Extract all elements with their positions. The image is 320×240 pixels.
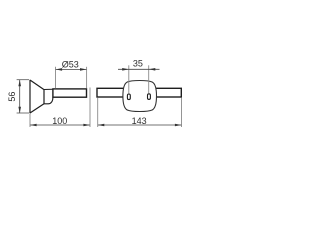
dim 100 left extension line: [29, 114, 31, 128]
dim 100 right extension line: [89, 88, 91, 128]
dim 143 left extension line: [97, 98, 99, 127]
front view bar: [97, 88, 181, 97]
dim 56 arrow up: [18, 80, 21, 87]
dim 100 dimension line: [30, 124, 90, 126]
side view cone body: [30, 80, 44, 113]
dim 143 right extension line: [181, 98, 183, 127]
screw hole right: [148, 94, 151, 100]
dim 35 dimension line: [118, 68, 160, 70]
dim O53 dimension line: [56, 68, 87, 70]
dim 143 dimension line: [98, 124, 181, 126]
dim 35 arrow left outside: [122, 68, 129, 71]
dim 56 top extension line: [17, 79, 30, 81]
svg-text:35: 35: [133, 59, 143, 69]
front view wall plate: [123, 81, 157, 112]
dim 56 bottom extension line: [17, 112, 30, 114]
svg-text:Ø53: Ø53: [62, 60, 79, 70]
dim O53 arrow right: [80, 68, 87, 71]
dim 100 arrow right: [83, 124, 90, 127]
svg-text:100: 100: [52, 116, 67, 126]
dim 35 arrow right outside: [149, 68, 156, 71]
dim 143 arrow left: [98, 124, 105, 127]
dim 143 arrow right: [175, 124, 182, 127]
dim O53 arrow left: [56, 68, 63, 71]
dim 35 right extension line: [148, 65, 150, 93]
svg-text:143: 143: [132, 116, 147, 126]
dim 56 dimension line: [19, 80, 21, 113]
svg-text:56: 56: [7, 92, 17, 102]
side view tube: [53, 89, 87, 97]
screw hole left: [127, 94, 130, 100]
dim 56 arrow down: [18, 107, 21, 114]
dim 35 left extension line: [128, 65, 130, 93]
dim 100 arrow left: [30, 124, 36, 127]
dim O53 right extension line: [86, 67, 88, 88]
side view neck bottom fillet: [44, 97, 53, 103]
dim O53 left extension line: [55, 67, 57, 89]
side view neck top line: [44, 88, 53, 90]
